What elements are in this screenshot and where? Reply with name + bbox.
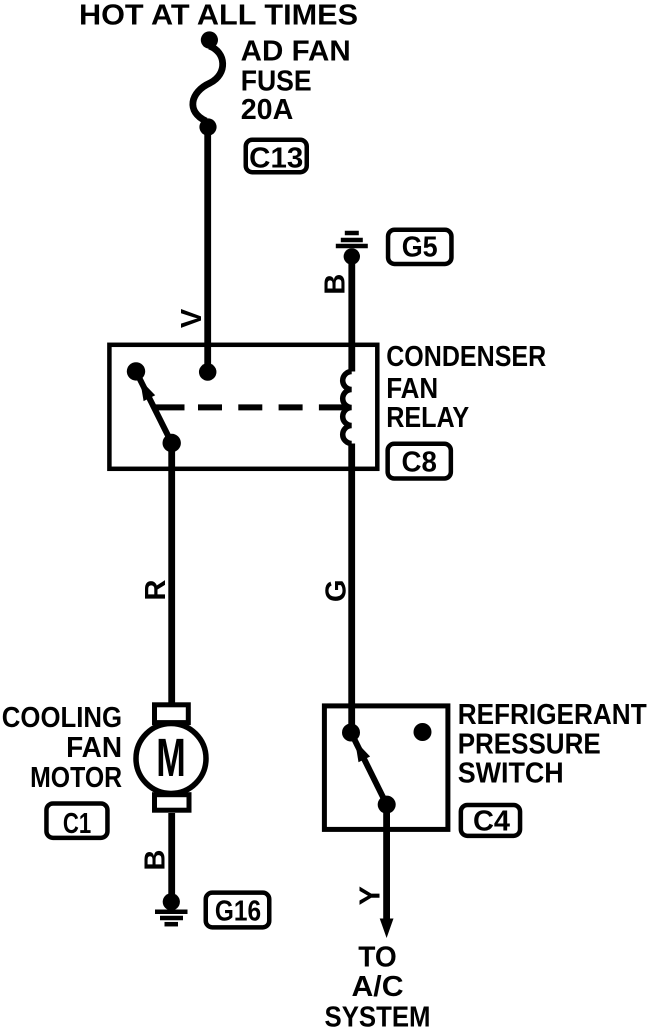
svg-text:REFRIGERANT: REFRIGERANT	[458, 699, 647, 731]
svg-text:AD FAN: AD FAN	[241, 36, 351, 68]
svg-text:CONDENSER: CONDENSER	[386, 341, 546, 373]
svg-text:SYSTEM: SYSTEM	[325, 1002, 431, 1031]
svg-text:Y: Y	[355, 886, 387, 905]
svg-text:MOTOR: MOTOR	[30, 762, 122, 794]
svg-text:HOT AT ALL TIMES: HOT AT ALL TIMES	[79, 0, 358, 31]
svg-text:C1: C1	[63, 808, 91, 840]
svg-text:20A: 20A	[241, 94, 294, 126]
svg-text:FUSE: FUSE	[241, 66, 312, 98]
svg-text:B: B	[140, 850, 172, 871]
svg-text:PRESSURE: PRESSURE	[458, 729, 601, 761]
svg-text:COOLING: COOLING	[2, 702, 122, 734]
svg-text:B: B	[319, 274, 351, 295]
svg-text:C13: C13	[249, 142, 303, 174]
svg-text:G16: G16	[215, 895, 261, 927]
svg-text:V: V	[176, 308, 208, 328]
svg-text:M: M	[156, 728, 186, 788]
svg-text:FAN: FAN	[386, 373, 438, 405]
svg-text:C4: C4	[473, 805, 510, 837]
svg-text:G: G	[320, 579, 352, 602]
svg-text:RELAY: RELAY	[386, 402, 469, 434]
svg-text:G5: G5	[402, 232, 438, 264]
svg-text:R: R	[140, 579, 172, 600]
svg-text:C8: C8	[402, 447, 437, 479]
svg-text:A/C: A/C	[352, 971, 404, 1003]
svg-text:FAN: FAN	[66, 732, 122, 764]
svg-text:TO: TO	[358, 942, 397, 974]
svg-text:SWITCH: SWITCH	[458, 758, 564, 790]
